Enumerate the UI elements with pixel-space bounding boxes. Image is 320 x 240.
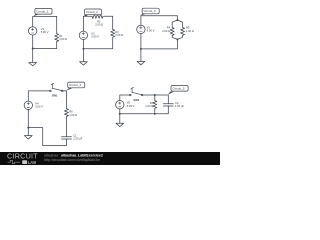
- capacitor C2: [163, 104, 173, 106]
- svg-text:SW1: SW1: [52, 93, 58, 97]
- label C1 value: [73, 134, 83, 141]
- flag Circuit_1: [33, 8, 52, 16]
- resistor R7: [153, 101, 157, 109]
- svg-text:2.00 Ω: 2.00 Ω: [115, 33, 123, 37]
- resistor R3: [111, 29, 115, 37]
- node R7 bottom: [154, 113, 156, 115]
- svg-text:5.00 V: 5.00 V: [127, 104, 135, 108]
- node junction circuit2: [82, 48, 84, 50]
- svg-text:Circuit_5: Circuit_5: [172, 86, 184, 90]
- wire top circuit5: V5 to switch: [120, 95, 130, 101]
- resistor R1: [55, 34, 59, 42]
- resistor R4 (left of parallel pair): [170, 20, 177, 39]
- voltage source V4: [24, 101, 32, 109]
- ground circuit3: [137, 61, 145, 64]
- label V1 value: [41, 27, 49, 34]
- ground circuit5: [116, 123, 124, 126]
- CircuitLab logo: [7, 152, 38, 166]
- svg-text:5.00 V: 5.00 V: [91, 34, 99, 38]
- svg-text:1.50 µF: 1.50 µF: [175, 104, 185, 108]
- node junction circuit1: [32, 48, 34, 50]
- label R4 value: [162, 26, 171, 33]
- svg-text:http://circuitlab.com/c4vb5tq8: http://circuitlab.com/c4vb5tq86dh3m: [44, 158, 100, 162]
- svg-text:Circuit_2: Circuit_2: [86, 10, 98, 14]
- wire top: V1 top to R1 top: [33, 16, 57, 33]
- svg-text:Circuit_4: Circuit_4: [69, 83, 81, 87]
- svg-text:2.00 Ω: 2.00 Ω: [162, 29, 170, 33]
- resistor R2 (horizontal): [92, 14, 103, 18]
- resistor R5 (right of parallel pair): [177, 20, 184, 39]
- label R7 value: [145, 101, 154, 108]
- flag Circuit_5: [168, 86, 188, 95]
- voltage source V1: [29, 27, 37, 35]
- wire R7 stub top: [154, 95, 156, 101]
- label V2 value: [91, 31, 99, 38]
- svg-text:1.00 Ω: 1.00 Ω: [186, 29, 194, 33]
- svg-text:5.00 V: 5.00 V: [35, 104, 43, 108]
- wire R6 to C1: [66, 117, 68, 137]
- voltage source V5: [116, 101, 124, 109]
- node junction V5 bottom: [119, 113, 121, 115]
- svg-text:LAB: LAB: [28, 160, 36, 165]
- resistor R6: [65, 109, 69, 117]
- capacitor C1: [62, 137, 72, 139]
- wire top circuit3: [141, 16, 178, 25]
- svg-text:Circuit_3: Circuit_3: [144, 9, 156, 13]
- wire bottom circuit4 return path: [28, 128, 66, 146]
- label V3 value: [147, 25, 155, 32]
- node junction circuit4: [27, 127, 29, 129]
- svg-text:5.00 V: 5.00 V: [147, 29, 155, 33]
- label R2 value: [95, 20, 103, 27]
- wire top circuit4: V4 to switch: [28, 91, 49, 101]
- wire switch to R6: [63, 91, 66, 109]
- voltage source V3: [137, 25, 145, 33]
- switch SW2: [130, 87, 143, 95]
- label C2 value: [175, 101, 185, 108]
- label R6 value: [69, 110, 77, 117]
- wire V4 down to ground: [27, 110, 29, 136]
- flag Circuit_2: [83, 9, 102, 17]
- flag Circuit_4: [66, 82, 85, 90]
- wire bottom: V1 stub down to ground, branch right to R1 bottom: [33, 35, 57, 62]
- ground circuit1: [29, 63, 37, 66]
- wire bottom circuit5: [120, 106, 169, 123]
- ground circuit2: [80, 62, 88, 65]
- svg-text:Circuit_1: Circuit_1: [36, 9, 48, 13]
- label SW1: [52, 93, 58, 97]
- svg-text:1.50 µF: 1.50 µF: [73, 137, 83, 141]
- node R7 top: [154, 94, 156, 96]
- svg-text:1.00 Ω: 1.00 Ω: [69, 113, 77, 117]
- flag Circuit_3: [140, 8, 159, 15]
- label R5 value: [186, 26, 194, 33]
- label V4 value: [35, 101, 43, 108]
- label V5 value: [127, 101, 135, 108]
- node junction circuit3: [140, 48, 142, 50]
- wire top: switch to R7 node to C2: [143, 95, 168, 104]
- voltage source V2: [79, 31, 87, 39]
- switch SW1: [50, 83, 63, 91]
- svg-text:5.00 V: 5.00 V: [41, 30, 49, 34]
- svg-text:SW2: SW2: [133, 98, 139, 102]
- label SW2: [133, 98, 139, 102]
- wire top circuit2: [83, 16, 112, 31]
- label R3 value: [115, 30, 123, 37]
- ground circuit4: [24, 136, 32, 139]
- svg-text:2.00 Ω: 2.00 Ω: [95, 23, 103, 27]
- wire bottom circuit3: [141, 34, 178, 62]
- wire R7 stub bottom: [154, 109, 156, 114]
- node top of parallel pair: [176, 19, 178, 21]
- node bottom of parallel pair: [176, 38, 178, 40]
- svg-text:1.00 Ω: 1.00 Ω: [145, 104, 153, 108]
- wire bottom circuit2: [83, 38, 112, 62]
- svg-text:1.00 Ω: 1.00 Ω: [59, 37, 67, 41]
- label R1 value: [59, 34, 67, 41]
